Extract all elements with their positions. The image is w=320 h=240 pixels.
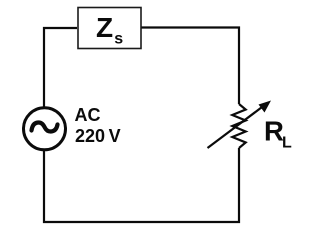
svg-text:L: L — [282, 135, 292, 152]
wire top-right segment — [141, 28, 239, 105]
svg-text:AC: AC — [75, 105, 101, 125]
svg-text:s: s — [114, 31, 123, 48]
svg-text:R: R — [264, 115, 284, 146]
svg-text:Z: Z — [96, 12, 113, 43]
wire left lower segment — [44, 148, 239, 222]
variable resistor arrow head — [259, 101, 272, 113]
AC source sine symbol — [32, 123, 58, 132]
variable resistor arrow shaft — [208, 105, 266, 148]
AC source U1 circle — [24, 108, 66, 150]
impedance box Zs — [78, 8, 141, 49]
svg-text:220 V: 220 V — [75, 126, 121, 146]
variable resistor RL zigzag — [232, 104, 245, 148]
wire top-left segment — [44, 28, 77, 107]
